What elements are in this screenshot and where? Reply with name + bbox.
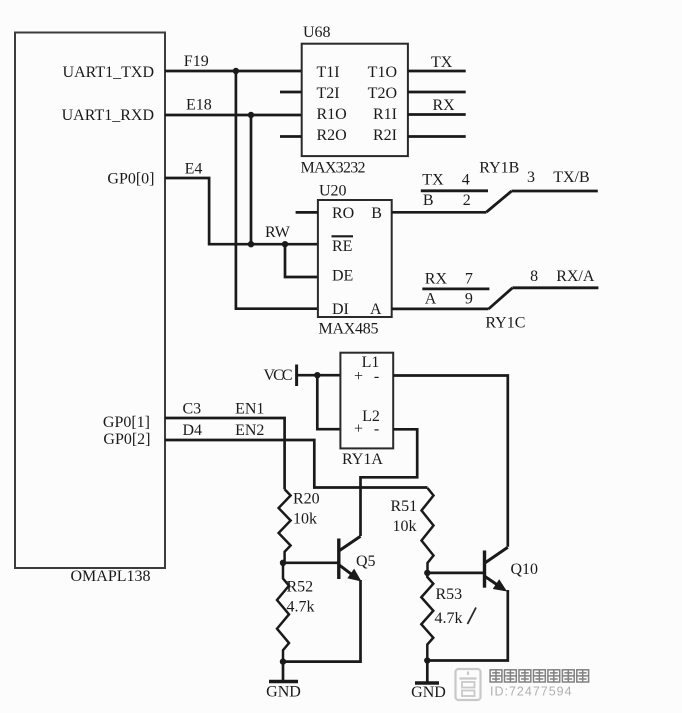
svg-text:RO: RO — [332, 205, 354, 222]
ground left — [282, 662, 285, 681]
junction R51/R53 node — [424, 570, 430, 576]
wire TXD branch to MAX485 DI — [236, 71, 318, 309]
svg-text:4.7k: 4.7k — [287, 599, 315, 616]
svg-text:A: A — [370, 301, 382, 318]
resistor R52 — [277, 563, 289, 662]
svg-text:R1I: R1I — [373, 106, 397, 123]
ground right — [426, 661, 429, 683]
svg-text:TX: TX — [431, 54, 453, 71]
svg-text:GND: GND — [266, 684, 301, 701]
stub wire R2I — [408, 135, 466, 138]
wire T1O to TX — [408, 70, 466, 73]
svg-text:RY1A: RY1A — [342, 451, 383, 468]
svg-text:D4: D4 — [183, 422, 203, 439]
svg-text:RX: RX — [433, 97, 456, 114]
svg-text:R53: R53 — [436, 586, 463, 603]
svg-text:Q5: Q5 — [356, 553, 376, 570]
watermark slash artifact — [468, 608, 477, 625]
RY1C fixed contact line — [422, 287, 489, 290]
svg-text:GND: GND — [411, 684, 446, 701]
wire node to Q5 base — [283, 561, 339, 564]
svg-text:T1I: T1I — [317, 64, 340, 81]
stub wire R2O — [280, 135, 302, 138]
wire MAX485 A to RY1C common — [392, 308, 489, 311]
svg-text:10k: 10k — [393, 518, 417, 535]
RY1B switch arm — [487, 191, 512, 212]
watermark logo box — [456, 669, 481, 700]
svg-text:U20: U20 — [319, 183, 347, 200]
svg-text:R20: R20 — [293, 491, 320, 508]
stub wire T2O — [408, 91, 466, 94]
stub wire T2I — [280, 91, 302, 94]
svg-text:RY1C: RY1C — [485, 314, 525, 331]
svg-text:T1O: T1O — [368, 64, 397, 81]
svg-text:4: 4 — [462, 171, 470, 188]
wire L1- to Q10 collector — [393, 376, 508, 547]
junction VCC node — [314, 372, 320, 378]
svg-text:EN1: EN1 — [235, 401, 264, 418]
RY1B output line to TX/B — [512, 190, 598, 193]
svg-text:C3: C3 — [183, 401, 202, 418]
IC U68 body — [302, 44, 408, 156]
wire VCC to relay L2+ — [317, 375, 340, 429]
resistor R51 — [422, 488, 434, 573]
wire L2- to Q5 collector — [361, 429, 418, 536]
svg-text:TX/B: TX/B — [553, 169, 589, 186]
svg-text:-: - — [374, 368, 379, 385]
svg-text:GP0[2]: GP0[2] — [103, 431, 150, 448]
junction R52/emitter/GND — [280, 658, 286, 664]
IC U20 body — [318, 200, 392, 317]
svg-text:OMAPL138: OMAPL138 — [70, 568, 150, 585]
svg-text:DI: DI — [332, 301, 349, 318]
svg-text:R2O: R2O — [317, 127, 347, 144]
wire GP0[0] E4 to MAX485 RE — [165, 178, 318, 244]
svg-text:E18: E18 — [186, 97, 212, 114]
svg-text:R2I: R2I — [373, 127, 397, 144]
svg-text:10k: 10k — [293, 511, 317, 528]
svg-text:9: 9 — [465, 290, 473, 307]
svg-text:RX: RX — [425, 270, 448, 287]
RY1B fixed contact line — [421, 189, 488, 192]
svg-text:4.7k: 4.7k — [435, 610, 463, 627]
svg-text:UART1_RXD: UART1_RXD — [62, 107, 154, 124]
svg-text:EN2: EN2 — [235, 422, 264, 439]
svg-text:B: B — [371, 205, 382, 222]
wire branch to MAX485 DE — [285, 244, 318, 277]
svg-text:TX: TX — [422, 171, 444, 188]
RY1C output line to RX/A — [513, 286, 599, 289]
svg-text:+: + — [354, 421, 363, 438]
relay coil RY1A body — [340, 353, 393, 449]
svg-text:B: B — [423, 192, 434, 209]
junction RW to DE branch — [282, 241, 288, 247]
junction on RXD net — [248, 112, 254, 118]
svg-text:ID:72477594: ID:72477594 — [490, 685, 573, 699]
svg-text:VCC: VCC — [264, 367, 293, 384]
RY1C switch arm — [489, 288, 513, 309]
svg-text:RW: RW — [265, 224, 291, 241]
resistor R20 — [279, 489, 291, 563]
stub wire RO — [296, 211, 318, 214]
wire Q5 emitter to GND node — [283, 580, 361, 662]
svg-text:2: 2 — [463, 192, 471, 209]
wire RXD branch down to RW line — [250, 115, 253, 244]
svg-text:R1O: R1O — [317, 106, 347, 123]
junction R20/R52 node — [280, 560, 286, 566]
junction R53/emitter/GND — [424, 657, 430, 663]
wire GP0[1] EN1 to R20 — [165, 418, 285, 489]
svg-text:7: 7 — [465, 270, 473, 287]
wire GP0[2] EN2 to R51 — [165, 440, 428, 488]
svg-text:UART1_TXD: UART1_TXD — [63, 64, 154, 81]
wire MAX485 B to RY1B common — [392, 211, 487, 214]
svg-text:MAX485: MAX485 — [319, 321, 379, 338]
svg-text:8: 8 — [530, 268, 538, 285]
overline of RE — [332, 235, 354, 237]
transistor Q10 — [485, 547, 508, 591]
wire UART1_TXD to MAX3232 T1I — [165, 70, 302, 73]
svg-text:GP0[0]: GP0[0] — [107, 170, 154, 187]
wire Q10 emitter to GND node — [427, 590, 508, 661]
svg-text:RY1B: RY1B — [479, 160, 519, 177]
wire R1I to RX — [408, 113, 466, 116]
wire node to Q10 base — [427, 572, 484, 575]
svg-text:-: - — [374, 421, 379, 438]
svg-text:RX/A: RX/A — [556, 268, 595, 285]
wire VCC to relay L1+ — [298, 374, 340, 377]
svg-text:E4: E4 — [185, 161, 203, 178]
junction on TXD net — [233, 68, 239, 74]
transistor Q5 — [339, 536, 361, 581]
junction RXD-RW — [248, 241, 254, 247]
VCC terminal tick — [295, 365, 298, 387]
svg-text:MAX3232: MAX3232 — [301, 160, 366, 177]
svg-text:+: + — [354, 368, 363, 385]
svg-text:RE: RE — [332, 238, 352, 255]
svg-text:R52: R52 — [287, 579, 314, 596]
svg-text:Q10: Q10 — [511, 561, 539, 578]
svg-text:R51: R51 — [391, 498, 418, 515]
svg-text:U68: U68 — [303, 24, 331, 41]
svg-text:F19: F19 — [184, 53, 209, 70]
resistor R53 — [421, 573, 433, 661]
svg-text:GP0[1]: GP0[1] — [103, 414, 150, 431]
svg-text:T2I: T2I — [317, 85, 340, 102]
svg-text:3: 3 — [527, 169, 535, 186]
svg-text:DE: DE — [332, 268, 353, 285]
wire UART1_RXD to MAX3232 R1O — [165, 114, 302, 117]
watermark CJK text row — [490, 670, 588, 682]
svg-text:T2O: T2O — [368, 85, 397, 102]
IC OMAPL138 body — [15, 33, 165, 569]
svg-text:A: A — [425, 290, 437, 307]
